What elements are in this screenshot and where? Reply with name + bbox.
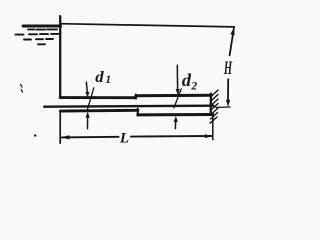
H dimension line upper segment: [230, 27, 234, 55]
pipe section 1 bottom wall: [60, 109, 137, 113]
pipe section 2 bottom wall: [138, 113, 213, 116]
L dimension arrow right: [205, 134, 213, 138]
svg-text:d: d: [182, 70, 191, 90]
tank wall: [59, 16, 61, 98]
H tick line at pipe axis level: [216, 106, 230, 108]
wall face at pipe end: [210, 94, 212, 115]
svg-text:d: d: [95, 69, 104, 86]
svg-text:2: 2: [190, 80, 197, 92]
L dimension line right part: [131, 135, 212, 138]
top reference line (water level to H): [60, 24, 234, 27]
L dimension arrow left: [60, 135, 69, 139]
water shading dashes row 4: [38, 43, 45, 45]
d2 arrow up to pipe bottom: [174, 122, 176, 129]
svg-text:L: L: [119, 131, 129, 147]
d2 leader slash: [174, 89, 181, 108]
svg-text:1: 1: [105, 74, 111, 86]
wall hatching: [210, 90, 218, 123]
d2 arrow down to pipe top: [176, 65, 178, 89]
pipe section 1 top wall: [60, 96, 136, 99]
L left extension line: [59, 112, 61, 144]
d1 leader slash: [87, 88, 94, 111]
H dimension arrow up: [230, 28, 234, 35]
speck dot bottom left: [34, 134, 36, 136]
d1 arrow down to pipe top: [85, 82, 88, 93]
water surface line: [23, 24, 60, 27]
H dimension line lower segment: [227, 79, 229, 100]
L right extension line: [212, 114, 214, 139]
H dimension arrow down: [226, 100, 230, 108]
L dimension line left part: [61, 136, 119, 139]
pipe axis line: [44, 106, 213, 107]
step down at transition (bottom): [137, 109, 139, 116]
water shading dashes row 3: [24, 38, 53, 41]
pipe section 2 top wall: [136, 94, 212, 98]
speck marks left: [21, 85, 22, 87]
svg-text:H: H: [223, 58, 232, 79]
step up at transition (top): [135, 95, 137, 99]
water shading dashes row 2: [16, 33, 60, 36]
water shading dashes row 1: [28, 28, 57, 30]
d1 arrow up to pipe bottom: [87, 117, 89, 129]
